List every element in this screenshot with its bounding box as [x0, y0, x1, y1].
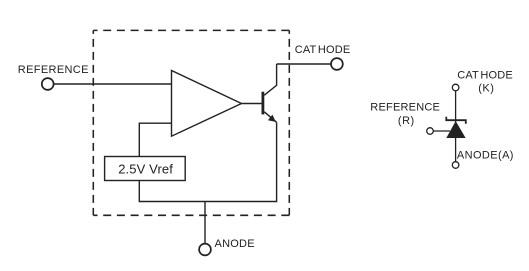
svg-text:ANODE: ANODE — [215, 238, 255, 250]
svg-text:REFERENCE: REFERENCE — [18, 64, 89, 76]
svg-text:CATHODE: CATHODE — [457, 70, 513, 82]
svg-text:2.5V Vref: 2.5V Vref — [118, 161, 173, 176]
svg-text:CATHODE: CATHODE — [295, 44, 351, 56]
svg-text:ANODE(A): ANODE(A) — [457, 150, 514, 162]
svg-text:REFERENCE: REFERENCE — [370, 101, 440, 113]
svg-text:(R): (R) — [398, 115, 415, 127]
svg-text:(K): (K) — [478, 82, 494, 94]
